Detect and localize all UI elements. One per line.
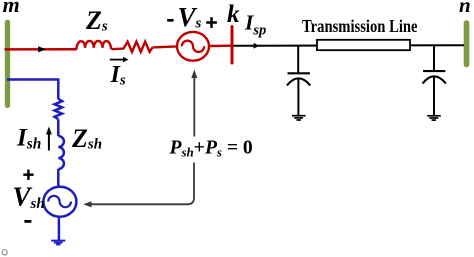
right shunt capacitor stem xyxy=(433,45,435,70)
node k bar (red) xyxy=(231,27,234,64)
label - Vs + xyxy=(167,19,173,22)
right capacitor curved plate xyxy=(423,76,446,83)
sine symbol inside Vsh xyxy=(48,196,71,207)
annotation line from text down and left to Vsh xyxy=(90,163,194,205)
ground (right capacitor) xyxy=(427,115,441,117)
arrowhead Isp xyxy=(254,43,260,49)
wire: blue between zigzag and coil xyxy=(57,119,60,136)
transmission line box xyxy=(317,40,410,50)
resistor part of Zsh (blue vertical zigzag) xyxy=(55,99,63,119)
up arrow beside Ish xyxy=(48,133,50,151)
svg-text:n: n xyxy=(459,0,471,17)
vector arrow over Is xyxy=(110,59,125,61)
svg-text:k: k xyxy=(227,1,240,28)
label + above Vsh xyxy=(23,173,33,175)
wire: black line from k to bus n xyxy=(234,44,465,47)
wire: blue below Vsh to ground xyxy=(58,217,61,240)
wire: red series wire from bus m to inductor xyxy=(5,48,78,51)
arrowhead on red wire (power flow direction) xyxy=(38,46,46,52)
right capacitor top plate xyxy=(423,70,445,72)
svg-text:m: m xyxy=(3,0,20,17)
bus m (left green bus bar) xyxy=(5,22,10,105)
wire: red between inductor and resistor xyxy=(112,47,125,50)
resistor part of Zs (red zigzag) xyxy=(124,42,153,52)
inductor part of Zs (red coil, 4 humps) xyxy=(77,41,112,49)
wire: blue between coil and shunt source xyxy=(57,169,60,188)
series voltage source Vs (red AC source circle) xyxy=(177,32,209,61)
annotation arrow up to Vs xyxy=(193,77,195,137)
sine symbol inside Vs xyxy=(182,41,204,52)
label - below Vsh xyxy=(24,220,31,223)
stray small circle artifact bottom-left xyxy=(2,250,7,255)
left capacitor curved plate xyxy=(287,78,310,85)
wire: red between resistor and series source xyxy=(153,46,177,47)
wire: red between source and node k xyxy=(209,45,231,48)
bus n (right green bus bar) xyxy=(464,23,470,65)
left capacitor top plate xyxy=(288,72,310,74)
shunt voltage source Vsh (blue AC source circle) xyxy=(43,187,76,217)
svg-text:Psh+Ps = 0: Psh+Ps = 0 xyxy=(169,137,253,159)
left shunt capacitor stem xyxy=(297,46,299,73)
svg-text:Transmission Line: Transmission Line xyxy=(302,16,418,36)
right capacitor lower stem xyxy=(433,76,435,115)
left capacitor lower stem xyxy=(297,78,299,115)
ground (shunt source, blue) xyxy=(51,240,65,242)
wire: blue shunt horizontal from bus m xyxy=(7,80,58,100)
inductor part of Zsh (blue coil, 3 bumps) xyxy=(58,136,64,169)
ground (left capacitor) xyxy=(292,115,306,117)
